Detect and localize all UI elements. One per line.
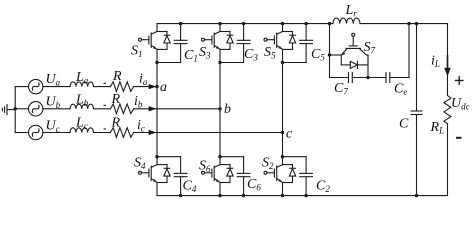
wire phase c to node c: [134, 132, 283, 134]
capacitor C1: [174, 24, 187, 63]
node: neutral junction dot: [14, 107, 17, 110]
svg-text:R: R: [112, 69, 122, 84]
wire neutral bus: [14, 87, 16, 133]
svg-text:C6: C6: [247, 177, 261, 193]
wire snubber bottom left: [330, 77, 349, 79]
inductor Lb: [70, 104, 94, 109]
svg-text:S1: S1: [131, 44, 143, 60]
svg-text:S6: S6: [199, 159, 211, 175]
wire phase b to resistor: [94, 108, 111, 110]
current arrow ic: [149, 130, 157, 135]
svg-text:R: R: [111, 116, 121, 131]
wire top rail: [157, 23, 333, 25]
capacitor C6: [237, 157, 250, 196]
svg-text:a: a: [160, 80, 167, 95]
svg-text:La: La: [75, 70, 89, 86]
resistor R phase b: [110, 104, 133, 114]
svg-text:S2: S2: [262, 156, 274, 172]
transistor S1: [139, 24, 171, 63]
svg-text:Ce: Ce: [394, 82, 407, 98]
node: C6 bottom on rail: [242, 194, 245, 197]
node: leg2 bottom on rail: [218, 194, 221, 197]
current arrow ib: [149, 106, 157, 111]
wire C2 top connector: [283, 156, 307, 158]
node: C1 top on rail: [179, 22, 182, 25]
wire C5 bottom connector: [283, 62, 307, 64]
svg-text:ic: ic: [137, 118, 145, 134]
wire phase b to node b: [134, 108, 220, 110]
node: leg2 top on rail: [218, 22, 221, 25]
svg-text:c: c: [286, 127, 293, 142]
wire top rail right of Lr: [360, 23, 448, 25]
node: leg3 bottom on rail: [281, 194, 284, 197]
transistor S7: [330, 33, 369, 77]
svg-text:Lb: Lb: [75, 93, 89, 109]
node a: [155, 85, 158, 88]
svg-text:b: b: [224, 102, 231, 117]
node: C5 top on rail: [304, 22, 307, 25]
node: C7/Ce junction: [366, 76, 369, 79]
svg-text:Lc: Lc: [75, 116, 88, 132]
inductor Lr: [333, 18, 360, 24]
wire snubber bottom mid: [352, 77, 386, 79]
current arrow ia: [149, 84, 157, 89]
svg-text:R: R: [111, 92, 121, 107]
wire C1 bottom connector: [157, 62, 181, 64]
node: C4 bottom on rail: [179, 194, 182, 197]
label plus: [455, 76, 464, 85]
wire leg1 mid: [156, 63, 158, 157]
svg-text:Ub: Ub: [46, 95, 61, 111]
transistor S3: [202, 24, 234, 63]
svg-text:S7: S7: [364, 40, 376, 56]
AC source Ua: [29, 79, 43, 93]
svg-text:ib: ib: [134, 94, 143, 110]
AC source Uc: [29, 125, 43, 139]
svg-text:C5: C5: [311, 47, 325, 63]
wire C3 bottom connector: [220, 62, 244, 64]
node: leg3/C2 junction: [281, 155, 284, 158]
wire snubber right vertical: [408, 24, 410, 78]
capacitor C7: [349, 73, 353, 83]
capacitor C output: [411, 24, 422, 196]
svg-text:iL: iL: [431, 54, 440, 70]
wire phase c to resistor: [94, 132, 111, 134]
label minus: [456, 137, 462, 139]
svg-text:S3: S3: [199, 45, 211, 61]
wire phase b to inductor: [43, 108, 70, 110]
mark dash phase b: [104, 104, 107, 106]
wire phase a to resistor: [94, 86, 111, 88]
node: C2 bottom on rail: [304, 194, 307, 197]
wire C4 top connector: [157, 156, 181, 158]
capacitor C2: [300, 157, 313, 196]
wire phase a left: [15, 86, 28, 88]
capacitor Ce: [386, 73, 390, 83]
node: leg3 top on rail: [281, 22, 284, 25]
node: C bottom on rail: [415, 194, 418, 197]
node: S7 branch tap: [328, 53, 331, 56]
wire phase c left: [15, 132, 28, 134]
wire leg3 mid: [282, 63, 284, 157]
transistor S4: [139, 157, 171, 196]
svg-text:C7: C7: [334, 81, 348, 97]
svg-text:S4: S4: [134, 156, 146, 172]
node: C3 top on rail: [242, 22, 245, 25]
capacitor C3: [237, 24, 250, 63]
mark dash phase c: [104, 128, 107, 130]
svg-text:Ua: Ua: [46, 72, 61, 88]
mark dash phase a: [104, 82, 107, 84]
wire leg2 mid: [219, 63, 221, 157]
resistor R phase a: [110, 82, 133, 92]
transistor S2: [264, 157, 296, 196]
capacitor C4: [174, 157, 187, 196]
resistor RL: [444, 96, 451, 124]
wire C6 top connector: [220, 156, 244, 158]
svg-text:Lr: Lr: [345, 3, 358, 18]
wire snubber left vertical: [329, 24, 331, 78]
transistor S6: [202, 157, 234, 196]
svg-text:ia: ia: [139, 72, 148, 88]
node b: [218, 107, 221, 110]
wire phase c to inductor: [43, 132, 70, 134]
node: snubber left on rail: [328, 22, 331, 25]
svg-text:Uc: Uc: [46, 119, 60, 135]
wire phase b left: [15, 108, 28, 110]
svg-text:C2: C2: [316, 179, 330, 195]
AC source Ub: [29, 102, 43, 116]
wire load branch bottom: [447, 124, 449, 196]
node: leg1/C1 junction: [155, 61, 158, 64]
inductor La: [70, 82, 94, 87]
node: leg2/C3 junction: [218, 61, 221, 64]
wire snubber bottom right: [390, 77, 409, 79]
node: leg3/C5 junction: [281, 61, 284, 64]
svg-text:Udc: Udc: [451, 96, 470, 112]
resistor R phase c: [110, 128, 133, 138]
inductor Lc: [70, 128, 94, 133]
current arrow iL: [444, 68, 451, 77]
wire phase a to node a: [134, 86, 157, 88]
ground: [2, 105, 15, 115]
wire load branch top: [447, 24, 449, 96]
node: leg1/C4 junction: [155, 155, 158, 158]
svg-text:S5: S5: [264, 45, 276, 61]
node: C top on rail: [415, 22, 418, 25]
svg-text:C3: C3: [244, 47, 258, 63]
capacitor C5: [300, 24, 313, 63]
wire phase a to inductor: [43, 86, 70, 88]
svg-text:C4: C4: [183, 179, 197, 195]
wire bottom rail: [157, 195, 448, 197]
transistor S5: [264, 24, 296, 63]
svg-text:C: C: [399, 117, 409, 132]
svg-text:C1: C1: [184, 48, 198, 64]
svg-text:RL: RL: [430, 120, 445, 136]
node c: [281, 131, 284, 134]
node: snubber right on rail: [407, 22, 410, 25]
node: leg2/C6 junction: [218, 155, 221, 158]
